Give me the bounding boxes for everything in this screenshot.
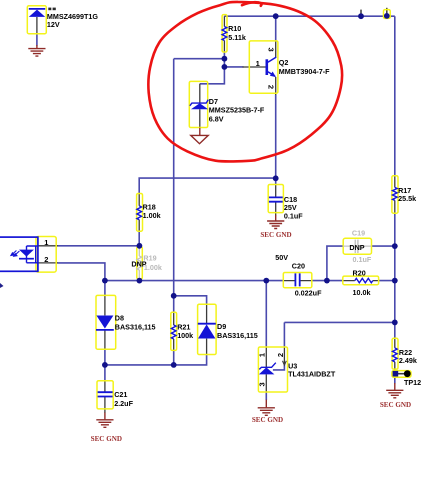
wire C21 top — [104, 365, 106, 381]
svg-text:BAS316,115: BAS316,115 — [217, 331, 258, 340]
wire opto pin1 to R18/R19 node — [58, 245, 140, 247]
pin lead C18 — [275, 185, 277, 216]
capacitor C18 plates — [269, 197, 283, 201]
svg-text:2.49k: 2.49k — [399, 356, 417, 365]
ground SEC GND under C21 — [96, 413, 113, 428]
svg-text:SEC GND: SEC GND — [260, 231, 291, 239]
pin number U3 pin3 — [258, 382, 267, 386]
junction C20 right / C19 branch — [324, 278, 330, 284]
diode D7 zener bar — [190, 100, 209, 106]
part box D8 — [96, 295, 116, 349]
wire opto pin2 corner down — [58, 263, 105, 281]
junction C19 right on bus — [392, 243, 398, 249]
svg-text:TL431AIDBZT: TL431AIDBZT — [288, 370, 336, 379]
diode D7 triangle — [191, 103, 208, 109]
resistor R10 zigzag — [222, 27, 227, 41]
part box C19 DNP — [343, 238, 371, 254]
diode D8 cathode bar — [96, 329, 114, 331]
pin number U3 pin1 — [258, 353, 267, 357]
pin number U3 pin2 — [276, 353, 285, 357]
TP12 square pad — [393, 371, 399, 377]
resistor R17 zigzag — [392, 187, 397, 200]
diode D5 zener bar — [29, 8, 45, 10]
svg-text:2: 2 — [267, 85, 276, 89]
svg-text:6.8V: 6.8V — [209, 114, 224, 123]
wire long vertical left rail — [173, 59, 175, 296]
junction top net stub — [358, 13, 364, 19]
pin lead R18 — [138, 194, 140, 232]
svg-text:2: 2 — [44, 255, 48, 264]
DARK COMPONENT LEADS — [37, 8, 405, 413]
wire Q2 collector to top net — [275, 16, 277, 41]
svg-text:D8: D8 — [115, 314, 124, 323]
R19 DNP gray body — [137, 247, 142, 281]
wire junction B down to D7 — [200, 67, 225, 84]
wire main horizontal net right of C20 — [312, 280, 343, 282]
junction opto2 / D8 — [102, 278, 108, 284]
optocoupler photodiode triangle — [19, 250, 34, 257]
wire right bus middle segment — [394, 213, 396, 339]
part box R10 — [222, 15, 227, 52]
wire R20 right to bus — [379, 280, 395, 282]
wire bottom net horizontal — [105, 355, 207, 365]
pin lead Q2 emitter — [275, 77, 277, 95]
part box D9 — [198, 304, 217, 354]
part box left zener D5 — [27, 6, 46, 34]
diode D9 cathode bar — [198, 323, 216, 325]
Q2 base bar — [265, 59, 268, 75]
resistor R22 zigzag — [392, 348, 397, 362]
part box TP12 — [392, 371, 411, 378]
pin number Q2 pin3 — [267, 48, 276, 52]
svg-text:1.00k: 1.00k — [143, 211, 161, 220]
resistor R18 zigzag — [137, 206, 142, 220]
junction R18/R19/opto1 — [137, 243, 143, 249]
part box R17 — [392, 176, 398, 214]
ref label D5 clipped — [48, 8, 56, 11]
svg-text:3: 3 — [258, 382, 267, 386]
pin lead U3 cathode — [265, 347, 267, 367]
svg-text:0.022uF: 0.022uF — [295, 289, 322, 298]
U3 cathode bar — [259, 363, 276, 370]
ground SEC GND under C18 — [267, 215, 284, 229]
optocoupler internal connections — [27, 246, 39, 263]
svg-text:SEC GND: SEC GND — [380, 401, 411, 409]
Q2 collector diagonal — [268, 57, 276, 62]
pin lead opto pin1 — [38, 245, 58, 247]
pin lead TP12 stub — [395, 373, 404, 375]
wire U3 pin2 arrow to triangle — [273, 365, 285, 370]
svg-text:DNP: DNP — [349, 243, 364, 252]
svg-text:0.1uF: 0.1uF — [284, 212, 303, 221]
part box Q2 — [249, 41, 278, 93]
svg-text:C20: C20 — [292, 261, 305, 270]
optocoupler photodiode bar — [19, 258, 34, 260]
wire R21 top lead — [173, 296, 175, 313]
diode D8 triangle — [96, 316, 113, 329]
junction top net / Q2 collector — [273, 13, 279, 19]
svg-text:BAS316,115: BAS316,115 — [115, 323, 156, 332]
wire R18 top to emitter node — [139, 178, 276, 194]
wire C19 right to bus — [372, 245, 395, 247]
wire R18 bottom to node — [138, 231, 140, 246]
junction C20 left / U3 — [263, 278, 269, 284]
pin lead C21 — [104, 381, 106, 413]
pin lead left zener — [36, 17, 38, 34]
junction R20 right on bus — [392, 278, 398, 284]
pin lead R20 — [343, 280, 379, 282]
pin lead U3 anode — [265, 374, 267, 392]
svg-text:100k: 100k — [177, 331, 193, 340]
wire U3 pin1 vertical — [265, 281, 267, 348]
junction R19 bottom — [137, 278, 143, 284]
pin lead R22 — [394, 338, 396, 371]
U3 triangle — [259, 367, 275, 374]
pin lead D7 — [199, 84, 201, 128]
pin lead U3 ref pin2 — [283, 347, 285, 364]
svg-text:C21: C21 — [114, 390, 127, 399]
svg-text:1: 1 — [44, 238, 48, 247]
junction U3 pin2 on bus — [392, 320, 398, 326]
wire main horizontal net left part — [105, 280, 284, 282]
resistor R20 zigzag horizontal — [355, 278, 373, 282]
wire U3 pin2 horizontal to bus — [284, 321, 394, 323]
junction net tie dot — [384, 13, 390, 19]
ground SEC GND under left zener D5 — [28, 45, 45, 56]
wire top net horizontal — [224, 15, 394, 17]
wire R21 bottom lead — [173, 350, 175, 365]
YELLOW PART BOXES — [27, 6, 411, 409]
svg-text:R20: R20 — [353, 268, 366, 277]
svg-text:1.00k: 1.00k — [144, 263, 162, 272]
wire junction A to left corner — [174, 58, 225, 60]
optocoupler light arrow 2 — [16, 251, 20, 255]
pin lead D9 — [206, 304, 208, 354]
junction left rail / R21 / D9 — [171, 293, 177, 299]
capacitor C20 plates — [295, 273, 299, 286]
TP12 probe dot — [404, 370, 411, 377]
wire junction B to Q2 base — [224, 66, 243, 68]
svg-text:1: 1 — [256, 59, 260, 68]
wire D8 bottom — [104, 349, 106, 365]
part box net tie top — [384, 10, 391, 19]
red annotation ellipse hand-drawn — [148, 2, 342, 162]
svg-text:SEC GND: SEC GND — [91, 435, 122, 443]
pin lead opto pin2 — [38, 262, 58, 264]
svg-text:D9: D9 — [217, 322, 226, 331]
optocoupler U2 package — [0, 237, 38, 271]
svg-text:0.1uF: 0.1uF — [353, 255, 372, 264]
pin lead C20 — [283, 280, 312, 282]
wire emitter node to C18 — [275, 178, 277, 185]
Q2 emitter diagonal — [268, 72, 275, 77]
wire C19 branch up and right — [327, 246, 343, 281]
pin lead R10 — [223, 16, 225, 52]
wire R10 bottom to junctions — [223, 52, 225, 67]
part box U3 — [258, 347, 287, 392]
svg-text:MMBT3904-7-F: MMBT3904-7-F — [279, 67, 330, 76]
wire U3 pin3 below box — [265, 392, 267, 400]
ground SEC GND under U3 — [258, 400, 275, 416]
svg-text:25.5k: 25.5k — [398, 194, 416, 203]
diode D5 triangle — [29, 10, 45, 17]
wire right bus below R22 to ground — [394, 369, 396, 384]
part box C18 — [268, 185, 283, 213]
junction A R10 bottom — [222, 56, 228, 62]
svg-text:5.11k: 5.11k — [228, 33, 246, 42]
stub up at net tie x386.8 — [386, 8, 388, 16]
wire left zener below — [36, 34, 38, 46]
svg-text:2: 2 — [276, 353, 285, 357]
wire D8 top branch — [104, 281, 106, 296]
Q2 emitter arrow — [270, 72, 276, 78]
part box R22 — [392, 338, 398, 369]
BLUE SYMBOL GRAPHICS — [29, 9, 397, 397]
optocoupler light arrow 1 — [11, 251, 20, 257]
svg-text:DNP: DNP — [131, 259, 146, 268]
C19 DNP gray body — [343, 240, 371, 253]
stub up at top net x361 — [360, 10, 362, 17]
wire D9 top branch — [174, 296, 207, 305]
part box C21 — [97, 381, 113, 409]
diode D9 triangle — [198, 324, 215, 338]
svg-text:Q2: Q2 — [279, 58, 289, 67]
junction D8 bottom / C21 — [102, 362, 108, 368]
pin lead Q2 base — [243, 66, 266, 68]
svg-text:10.0k: 10.0k — [353, 288, 371, 297]
pin lead Q2 collector — [275, 41, 277, 57]
wire right bus upper segment — [394, 16, 396, 176]
optocoupler clipped label mark at left edge — [0, 283, 4, 288]
pin number Q2 pin2 — [267, 85, 276, 89]
svg-text:TP12: TP12 — [404, 378, 421, 387]
ground power-gnd triangle under D7 — [191, 128, 208, 144]
pin lead D8 — [104, 296, 106, 350]
part box R21 — [171, 312, 177, 350]
part box R18 — [137, 194, 143, 232]
junction emitter / R18 / C18 — [273, 175, 279, 181]
svg-text:2.2uF: 2.2uF — [114, 399, 133, 408]
U3 pin2 down arrowhead — [283, 361, 287, 365]
part box D7 — [189, 81, 207, 127]
svg-text:12V: 12V — [47, 20, 60, 29]
junction B base/D7 — [222, 64, 228, 70]
svg-text:MMSZ5235B-7-F: MMSZ5235B-7-F — [209, 105, 265, 114]
svg-text:3: 3 — [267, 48, 276, 52]
capacitor C21 plates — [98, 392, 113, 396]
junction R21 bottom — [171, 362, 177, 368]
svg-text:1: 1 — [258, 353, 267, 357]
svg-text:C19: C19 — [352, 229, 365, 238]
part box R20 — [343, 276, 379, 285]
ground SEC GND under R22 — [386, 383, 403, 398]
svg-text:SEC GND: SEC GND — [252, 416, 283, 424]
pin lead R21 — [173, 312, 175, 350]
part box R19 DNP — [137, 247, 143, 279]
wire U3 pin2 vertical — [283, 322, 285, 347]
part box optocoupler — [36, 237, 56, 273]
pin lead R17 — [394, 176, 396, 213]
part box C20 — [283, 273, 312, 288]
wire Q2 emitter down — [275, 95, 277, 179]
svg-text:50V: 50V — [275, 253, 288, 262]
resistor R21 zigzag — [171, 325, 176, 339]
